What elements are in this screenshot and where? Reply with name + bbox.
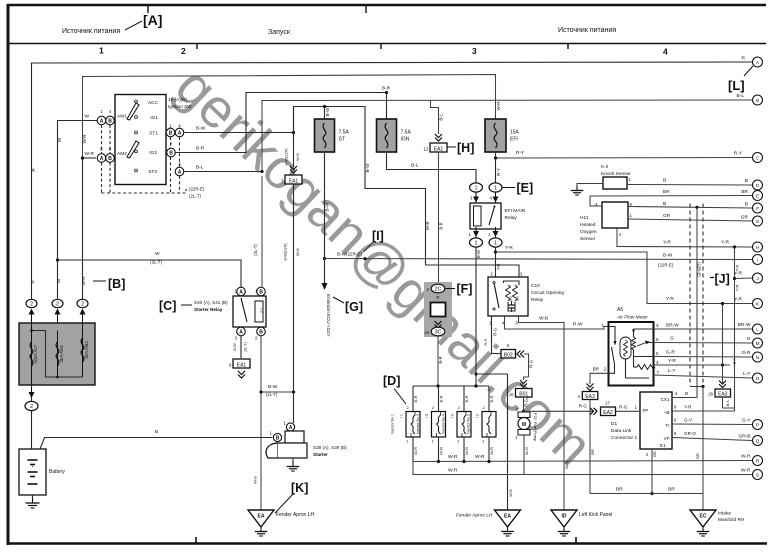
svg-text:7.5A: 7.5A: [339, 130, 350, 136]
svg-text:GR-O: GR-O: [684, 431, 696, 436]
starter relay S40 S41: [233, 296, 266, 327]
H11 heated oxygen sensor: [602, 202, 628, 228]
svg-text:TI: TI: [665, 423, 669, 428]
svg-text:0.0: 0.0: [509, 296, 513, 301]
connector EA3 4: [582, 392, 598, 400]
svg-text:W-R: W-R: [496, 101, 501, 111]
wire through connector F: [437, 336, 439, 386]
svg-text:B-R: B-R: [464, 395, 469, 402]
svg-text:W-B: W-B: [295, 153, 300, 161]
svg-text:B-W(22R): B-W(22R): [283, 243, 288, 261]
svg-text:W-R: W-R: [82, 134, 87, 144]
svg-text:G-R: G-R: [666, 350, 675, 356]
wire B-W from EFI relay down to injector bus: [475, 247, 477, 385]
connector EA1 6: [233, 359, 250, 368]
svg-text:7: 7: [281, 179, 284, 184]
svg-text:W-R: W-R: [464, 447, 469, 455]
terminal oval 2 below fusible link: [31, 385, 33, 401]
svg-text:Emission ECU <O2>: Emission ECU <O2>: [326, 294, 331, 337]
svg-text:W-R: W-R: [439, 447, 444, 455]
svg-text:Injector No.2: Injector No.2: [467, 414, 471, 434]
wire B battery to starter: [40, 438, 273, 450]
svg-text:S: S: [756, 472, 759, 477]
svg-text:B-W: B-W: [325, 107, 330, 117]
svg-text:H: H: [756, 245, 759, 250]
svg-text:B-W: B-W: [232, 343, 237, 351]
svg-text:P: P: [756, 422, 759, 427]
wire B-L branch down from top line to EA1 [H]: [431, 100, 439, 134]
svg-text:B-R: B-R: [413, 395, 418, 402]
svg-text:R: R: [742, 56, 746, 62]
wire BR from pin4 to connector E: [590, 196, 752, 207]
svg-text:EA3: EA3: [585, 394, 595, 400]
svg-text:B-W: B-W: [196, 126, 206, 132]
connector EA3 26: [715, 389, 731, 397]
svg-text:BR: BR: [695, 453, 700, 459]
wire W with 2L-T branch: [57, 121, 59, 300]
svg-text:15: 15: [424, 330, 429, 335]
svg-text:Ignition SW: Ignition SW: [168, 104, 192, 109]
connector O: [753, 373, 763, 383]
svg-text:GR: GR: [741, 215, 749, 221]
svg-text:ACC: ACC: [148, 100, 159, 106]
svg-text:Запуск: Запуск: [268, 29, 291, 36]
svg-text:Left Kick Panel: Left Kick Panel: [579, 512, 612, 518]
fuse 7.5A IGN: [377, 119, 397, 152]
svg-text:Heated: Heated: [580, 222, 596, 228]
svg-text:ID: ID: [562, 514, 567, 520]
connector G: [753, 216, 763, 226]
wire B to connector D: [627, 184, 752, 187]
svg-text:M: M: [756, 341, 760, 346]
svg-text:[A]: [A]: [143, 12, 162, 28]
svg-text:GR-B: GR-B: [739, 434, 751, 440]
svg-text:I 3: I 3: [425, 414, 429, 418]
svg-text:Источник питания: Источник питания: [558, 27, 616, 34]
svg-text:W-B: W-B: [253, 476, 258, 484]
svg-text:Fender Apron LH: Fender Apron LH: [276, 512, 314, 518]
svg-text:R-Y: R-Y: [496, 168, 501, 176]
svg-text:B: B: [169, 150, 173, 156]
wire W-R top loop (fusible link to EFI fuse): [83, 75, 496, 159]
injector Injector No.4: [463, 386, 465, 412]
svg-text:Y-R: Y-R: [684, 405, 692, 410]
svg-text:G: G: [747, 336, 751, 342]
svg-text:B-W: B-W: [325, 202, 330, 212]
svg-text:CX1: CX1: [661, 397, 670, 402]
svg-text:Relay: Relay: [531, 297, 544, 303]
svg-text:B: B: [663, 178, 666, 184]
wire B-R from IG2: [175, 93, 386, 153]
svg-text:16-(A)(B): 16-(A)(B): [168, 97, 187, 102]
svg-text:[H]: [H]: [457, 141, 474, 155]
svg-text:R-G: R-G: [579, 404, 588, 409]
svg-text:Injector No.3: Injector No.3: [416, 414, 420, 434]
svg-text:6: 6: [656, 337, 659, 342]
svg-text:EC: EC: [700, 514, 707, 520]
svg-text:2: 2: [81, 302, 84, 308]
svg-text:O: O: [756, 376, 760, 381]
wire B-L long top (ST2 to connector B): [262, 100, 752, 171]
injector Injector No.1: [412, 386, 414, 412]
wire G-R pin5 to connector N: [654, 356, 753, 359]
svg-text:15A: 15A: [510, 130, 520, 136]
connector E: [753, 191, 763, 201]
svg-text:Y-R: Y-R: [668, 358, 676, 364]
injector bottom bus W-R to connector R: [413, 461, 752, 462]
wire to EA1-7 and down to starter: [293, 107, 295, 168]
connector F square: [431, 303, 446, 317]
connector A: [753, 57, 763, 67]
wire Y-R from K-line junction through EA3: [722, 304, 724, 384]
svg-text:A: A: [100, 118, 104, 124]
svg-text:[L]: [L]: [728, 78, 745, 93]
svg-text:12: 12: [423, 147, 429, 152]
svg-text:EA: EA: [258, 514, 265, 520]
lever AM1: [127, 103, 139, 120]
wire BR pin2 to EA3-4 and down: [590, 373, 609, 384]
svg-text:GR: GR: [663, 213, 671, 219]
svg-text:R-Y: R-Y: [734, 151, 743, 157]
svg-text:R-G: R-G: [493, 328, 498, 336]
svg-text:B: B: [259, 329, 263, 335]
EFI relay bottom terminals: [475, 229, 477, 238]
connector I: [753, 255, 763, 265]
svg-text:1: 1: [494, 186, 497, 192]
svg-text:(22R-E): (22R-E): [658, 263, 674, 268]
fuse 15A EFI: [485, 119, 506, 152]
svg-text:Y-R: Y-R: [726, 400, 731, 407]
svg-text:4: 4: [656, 360, 659, 365]
EFI relay top terminals: [470, 183, 483, 192]
svg-text:N: N: [756, 355, 759, 360]
svg-text:W-R: W-R: [741, 468, 751, 474]
svg-text:1: 1: [99, 46, 104, 56]
svg-text:A: A: [239, 329, 243, 335]
connector H: [753, 242, 763, 252]
svg-text:B: B: [663, 201, 666, 207]
wire Y-R from pin2 to connector H: [617, 228, 752, 247]
svg-text:A: A: [100, 156, 104, 162]
svg-text:W-R: W-R: [413, 447, 418, 455]
svg-text:3C: 3C: [434, 330, 441, 336]
svg-text:EA2: EA2: [603, 410, 613, 416]
wire G-Y from TI to connector P: [672, 423, 752, 426]
wire R-W from C10 pin 4 to air flow meter: [505, 316, 609, 329]
svg-text:R-W: R-W: [573, 322, 583, 328]
svg-text:Источник питания: Источник питания: [62, 28, 120, 35]
svg-text:B-L: B-L: [439, 113, 444, 121]
svg-text:6: 6: [229, 363, 232, 368]
thick wire W-B down to ground EA2 triangle: [507, 374, 509, 510]
svg-text:Q: Q: [756, 438, 760, 443]
AFM internals: switch: [609, 327, 616, 342]
svg-text:C10: C10: [531, 283, 540, 289]
connector EA1 7: [285, 175, 302, 184]
svg-text:Starter Relay: Starter Relay: [194, 307, 223, 312]
svg-text:B: B: [745, 202, 748, 208]
battery ground: [32, 495, 34, 500]
svg-text:EA: EA: [504, 514, 511, 520]
svg-text:Fender Apron LH: Fender Apron LH: [456, 513, 493, 519]
svg-text:(2L-T): (2L-T): [253, 244, 258, 256]
label [L] callout: [744, 66, 753, 76]
svg-text:W-R: W-R: [81, 276, 86, 286]
wire B-W upper loop to ST fuse: [294, 107, 520, 278]
svg-text:Circuit Opening: Circuit Opening: [531, 290, 564, 296]
svg-text:A: A: [178, 169, 182, 175]
svg-text:B-W: B-W: [476, 250, 481, 258]
svg-text:A: A: [289, 425, 293, 431]
wire from EA1-7 down to starter A: [293, 184, 295, 423]
svg-text:W-R: W-R: [741, 454, 751, 460]
ground EC intake manifold RH: [690, 510, 716, 527]
svg-text:K-2: K-2: [601, 164, 609, 170]
relay internals: [241, 298, 247, 322]
connector J: [753, 273, 763, 283]
wire E1 to BR bus: [651, 449, 653, 494]
C10 internals: coils: [506, 285, 511, 301]
svg-text:3: 3: [472, 46, 477, 56]
svg-text:B-R: B-R: [489, 395, 494, 402]
watermark gerikogan@gmail.com: [164, 55, 604, 477]
svg-text:BR: BR: [652, 451, 657, 457]
connector M: [753, 338, 763, 348]
wire L-Y pin7 to connector O: [654, 375, 753, 378]
connector B: [753, 95, 763, 105]
svg-text:B-R: B-R: [438, 356, 443, 363]
svg-text:2C: 2C: [434, 287, 441, 293]
ignition dashed links: [101, 125, 103, 153]
svg-text:W-B: W-B: [539, 316, 548, 322]
svg-text:EFI MAIN: EFI MAIN: [505, 208, 526, 214]
svg-text:EA1: EA1: [434, 146, 444, 152]
dashed box bottom jog: [690, 386, 703, 388]
fusible link 40A AM1: [57, 331, 59, 378]
svg-text:Air Flow Meter: Air Flow Meter: [616, 315, 648, 321]
wire R (battery to top, to connector A): [32, 62, 753, 300]
svg-text:Oxygen: Oxygen: [580, 229, 597, 235]
connector S: [753, 470, 763, 480]
svg-text:S38 (A), S39 (B): S38 (A), S39 (B): [313, 445, 347, 450]
connector B01: [524, 377, 529, 380]
svg-text:G-Y: G-Y: [684, 418, 692, 423]
svg-text:Y-R: Y-R: [496, 264, 501, 271]
connector R: [753, 456, 763, 466]
svg-text:[E]: [E]: [517, 181, 534, 195]
svg-text:BR: BR: [663, 189, 670, 195]
wire R-G from C10 pin1 to B02: [492, 316, 502, 354]
svg-text:BR-W: BR-W: [666, 323, 679, 329]
dashed 22R-E box: [689, 204, 691, 387]
svg-text:7.5A: 7.5A: [401, 130, 412, 136]
C10 internal connects: [504, 281, 520, 285]
svg-text:W-B: W-B: [425, 222, 430, 231]
svg-text:BR: BR: [741, 189, 748, 195]
svg-text:Y-R: Y-R: [734, 297, 742, 303]
wire W (2L-T) to starter relay: [58, 260, 242, 288]
connector P: [753, 420, 763, 430]
connector EA1 [H]: [435, 134, 442, 138]
wire R-G from B02 to B01: [524, 354, 529, 377]
svg-text:EA3: EA3: [718, 391, 728, 397]
fusible link 100A ALT: [31, 323, 33, 385]
svg-text:A: A: [178, 130, 182, 136]
svg-text:W: W: [84, 114, 89, 120]
svg-text:[B]: [B]: [108, 277, 125, 291]
wire Y-R pin4 to EA3 junction: [654, 364, 731, 366]
svg-text:4: 4: [663, 47, 668, 57]
wire Y-R from H junction down to +B: [734, 247, 736, 411]
svg-text:1: 1: [474, 241, 477, 247]
lower bus W-R to connector S: [413, 462, 752, 475]
battery: [19, 449, 46, 495]
svg-text:[D]: [D]: [383, 374, 400, 388]
svg-text:Injector No.4: Injector No.4: [442, 414, 446, 434]
svg-text:B: B: [745, 178, 748, 184]
svg-text:Knock Sensor: Knock Sensor: [601, 171, 631, 177]
svg-text:17: 17: [605, 401, 610, 406]
svg-text:(2L-T): (2L-T): [150, 260, 162, 265]
svg-text:W: W: [57, 137, 62, 142]
wire B from pin9 to connector F: [628, 207, 752, 209]
svg-text:R-G: R-G: [529, 360, 534, 368]
svg-text:W-R: W-R: [84, 151, 94, 157]
wire down to ground EA: [260, 392, 262, 510]
svg-text:7: 7: [657, 370, 660, 375]
connector B02: [501, 350, 516, 359]
svg-text:10: 10: [509, 392, 514, 397]
svg-text:Y-R: Y-R: [721, 240, 729, 246]
svg-text:G: G: [670, 336, 674, 342]
svg-text:(2L-T): (2L-T): [189, 194, 201, 199]
svg-text:IG2: IG2: [149, 150, 157, 156]
relay B pin wire (2L-T): [261, 176, 263, 288]
svg-text:1: 1: [494, 241, 497, 247]
svg-text:E: E: [756, 193, 759, 198]
svg-text:B-L: B-L: [411, 163, 419, 169]
connector D: [753, 180, 763, 190]
svg-text:3: 3: [656, 323, 659, 328]
ignition switch box: [115, 95, 166, 185]
svg-text:W-B: W-B: [295, 248, 300, 256]
svg-text:IG1: IG1: [150, 115, 158, 121]
svg-text:[I]: [I]: [372, 229, 384, 243]
connector F: [753, 203, 763, 213]
ground ID left kick panel: [551, 510, 577, 527]
wire Y-R to +B: [672, 410, 735, 412]
svg-text:B-W(22R): B-W(22R): [284, 148, 289, 166]
svg-text:B: B: [108, 118, 112, 124]
wire continue below EA1 H down to connector F: [438, 152, 440, 284]
svg-text:BR: BR: [616, 487, 623, 493]
connector C: [753, 153, 763, 163]
svg-text:FP: FP: [643, 408, 649, 413]
svg-text:Y-R: Y-R: [663, 240, 671, 246]
svg-text:BR: BR: [668, 487, 675, 493]
wire W-R to AM2: [83, 157, 97, 159]
svg-text:L-Y: L-Y: [743, 371, 751, 377]
wire B from CX1 up inside dashed area: [672, 207, 697, 397]
svg-text:W-R: W-R: [475, 454, 485, 460]
svg-text:26: 26: [708, 392, 713, 397]
svg-text:Data Link: Data Link: [611, 428, 632, 434]
svg-text:30A AM2: 30A AM2: [84, 341, 89, 359]
svg-text:R-G: R-G: [484, 338, 488, 345]
svg-text:B: B: [756, 98, 759, 103]
svg-text:Injector No.1: Injector No.1: [391, 414, 395, 434]
svg-text:Y-R: Y-R: [734, 271, 742, 277]
label [B] callout: [93, 280, 106, 282]
svg-text:Sensor: Sensor: [580, 236, 596, 242]
svg-text:Starter: Starter: [313, 452, 328, 457]
header labels: [62, 12, 668, 57]
svg-text:B: B: [259, 289, 263, 295]
svg-text:I 0: I 0: [451, 414, 455, 418]
fusible link internal wires: [32, 331, 83, 378]
svg-text:F: F: [756, 206, 759, 211]
svg-text:2: 2: [56, 302, 59, 308]
svg-text:B: B: [155, 429, 158, 435]
lever AM2: [127, 141, 139, 158]
wire GR-O from VF to connector Q: [672, 438, 752, 441]
wire R-G from B01 to fuel pump: [523, 397, 525, 412]
svg-text:BR: BR: [590, 449, 595, 455]
injector Injector No.2: [488, 386, 490, 412]
svg-text:IGN: IGN: [401, 137, 410, 143]
svg-text:2: 2: [603, 367, 606, 372]
svg-text:[G]: [G]: [345, 300, 363, 314]
svg-text:AM2: AM2: [117, 151, 127, 157]
knock sensor ground: [577, 184, 603, 189]
wire W-G pump to bus: [523, 435, 525, 475]
relay bottom-right wire B-W(2L-T) to starter: [261, 336, 294, 393]
svg-text:A5: A5: [617, 307, 623, 313]
svg-text:M: M: [522, 422, 526, 428]
svg-text:B-W(22R-E): B-W(22R-E): [337, 252, 362, 257]
fusible link box: [19, 323, 95, 385]
D1 data link connector 1: [640, 392, 672, 449]
svg-text:R-G: R-G: [524, 399, 529, 407]
svg-text:S40 (A), S41 (B): S40 (A), S41 (B): [194, 300, 228, 305]
svg-text:Y-R: Y-R: [732, 358, 737, 365]
svg-text:Y-R: Y-R: [735, 285, 740, 292]
wire GR from pin1 to connector G: [628, 219, 752, 221]
svg-text:Relay: Relay: [505, 215, 518, 221]
svg-text:VF: VF: [664, 436, 670, 441]
svg-text:+B: +B: [664, 410, 670, 415]
svg-text:H11: H11: [580, 215, 589, 221]
svg-text:W-B: W-B: [508, 489, 513, 497]
svg-text:Intake: Intake: [718, 511, 731, 517]
svg-text:2: 2: [181, 46, 186, 56]
svg-text:0.0: 0.0: [516, 296, 520, 301]
svg-text:1: 1: [474, 186, 477, 192]
svg-text:W-R: W-R: [564, 461, 569, 469]
connector N: [753, 352, 763, 362]
svg-text:[K]: [K]: [291, 481, 308, 495]
svg-text:W: W: [155, 251, 160, 257]
svg-text:[F]: [F]: [457, 282, 473, 296]
svg-text:(2L-T): (2L-T): [244, 342, 248, 352]
svg-text:B: B: [685, 391, 688, 396]
svg-text:L-Y: L-Y: [668, 368, 676, 374]
AFM internals: bottom resistor: [634, 356, 654, 358]
connector K: [753, 299, 763, 309]
wire B-W jog to thick ground line: [476, 373, 508, 375]
svg-text:B-R: B-R: [439, 395, 444, 402]
wire BR down to EC ground: [702, 387, 704, 511]
